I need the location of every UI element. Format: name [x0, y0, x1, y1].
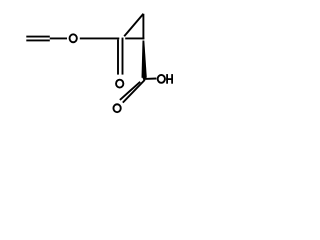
wedge-to-acid-carbon junction: [142, 77, 146, 80]
wedge bond: [142, 41, 147, 78]
cyclopropane bottom edge: [125, 37, 144, 39]
vinyl C=C double bond: [26, 36, 50, 38]
ester C=O double bond: [117, 40, 119, 75]
wire: CH-O bond: [50, 37, 67, 39]
cyclopropane hypotenuse: [124, 14, 143, 37]
atom label O (acid carbonyl): [113, 104, 120, 112]
cyclopropane right edge: [142, 14, 144, 40]
atom label OH: O ring: [158, 75, 165, 83]
atom label O (ester carbonyl): [116, 80, 123, 88]
atom label O (ester chain): [70, 34, 77, 42]
acid C-OH bond: [145, 78, 157, 80]
atom label OH: H strokes: [166, 74, 173, 84]
wire: O-C(=O) ester bond: [80, 37, 120, 39]
acid C=O double bond: [123, 80, 145, 103]
